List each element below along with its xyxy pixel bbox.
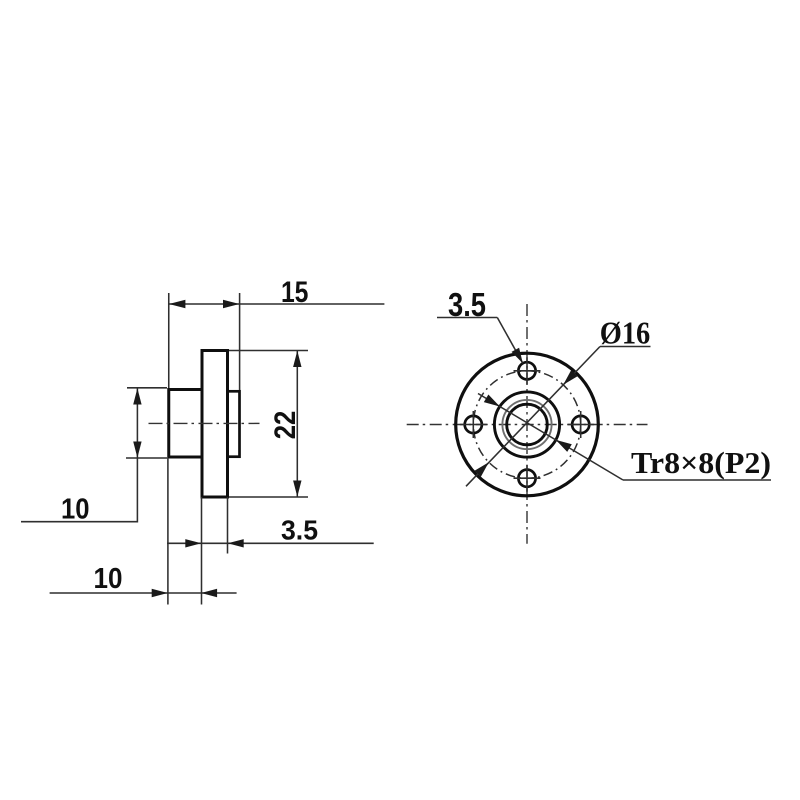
dim 22: extension line bottom (229, 496, 308, 498)
dim 15: extension line left (168, 293, 170, 388)
dim 10 vertical: extension top (127, 387, 167, 389)
dim Ø16: diagonal line through center (466, 347, 600, 487)
dim 3.5: left arrow (185, 539, 201, 547)
dim 22: extension line top (229, 350, 308, 352)
dim 10 bottom: left arrow (152, 589, 168, 597)
dim 10 bottom: right arrow (201, 589, 217, 597)
dim 3.5 hole: arrow at hole (512, 348, 523, 364)
dim 10 bottom: extension right (flange left edge extended) (201, 554, 203, 605)
dim 3.5: dimension line (167, 542, 374, 544)
dim 10 vertical: top arrow (133, 388, 141, 404)
boss circle (494, 392, 559, 457)
dim 3.5: extension line right (227, 497, 229, 554)
bore circle (507, 404, 548, 445)
svg-text:10: 10 (94, 563, 123, 595)
svg-text:10: 10 (61, 493, 90, 525)
bolt circle (dashed) (473, 371, 580, 478)
dim 22: dimension line (296, 351, 298, 498)
svg-text:3.5: 3.5 (448, 287, 486, 324)
dim 10 vertical: extension bottom (126, 457, 167, 459)
dim 3.5 hole: leader (497, 318, 523, 364)
dim Ø16: NE arrow on bolt circle (563, 370, 577, 385)
dim 10 vertical: dimension line + leader down (21, 389, 137, 522)
svg-text:22: 22 (269, 411, 302, 440)
dim 10 bottom: extension left (body left edge extended) (167, 458, 169, 605)
dim 3.5: right arrow (228, 539, 244, 547)
svg-text:15: 15 (281, 276, 309, 309)
bottom hole cross ticks (514, 465, 541, 492)
thread circle (thin gray) (502, 400, 551, 449)
dim Ø16: label underline (600, 346, 651, 348)
dim 15: left arrow (169, 300, 186, 308)
top hole cross ticks (514, 357, 541, 384)
hole left (465, 416, 482, 433)
dim Tr8x8: label underline (623, 479, 771, 481)
dim 10 vertical: bottom arrow (133, 442, 141, 458)
dim Tr8x8: diagonal line through center (478, 394, 623, 481)
nut body rectangle (169, 390, 202, 458)
hole top (518, 362, 535, 379)
centerline left view (149, 422, 260, 424)
dim 3.5: extension line left (201, 497, 203, 554)
horizontal centerline (407, 424, 648, 426)
vertical centerline (526, 304, 528, 544)
dim Tr8x8: SE arrow on boss circle (556, 440, 572, 452)
dim Ø16: SW arrow on bolt circle (475, 462, 489, 477)
boss rectangle (228, 391, 240, 456)
dim 15: right arrow (223, 300, 239, 308)
dim Tr8x8: NW arrow on boss circle (484, 395, 500, 407)
dim 22: top arrow (293, 351, 301, 367)
flange outer circle (456, 353, 599, 496)
hole bottom (518, 470, 535, 487)
right hole cross ticks (567, 411, 594, 438)
hole right (572, 416, 589, 433)
svg-text:3.5: 3.5 (281, 515, 318, 546)
dim 3.5 hole: label underline (437, 317, 497, 319)
flange plate rectangle (202, 351, 228, 498)
left hole cross ticks (460, 411, 487, 438)
svg-text:Ø16: Ø16 (600, 315, 651, 351)
dim 15: dimension line (169, 303, 385, 305)
dim 15: extension line right (239, 293, 241, 390)
svg-text:Tr8×8(P2): Tr8×8(P2) (631, 445, 771, 480)
dim 10 bottom: dimension line (50, 592, 237, 594)
dim 22: bottom arrow (293, 481, 301, 497)
